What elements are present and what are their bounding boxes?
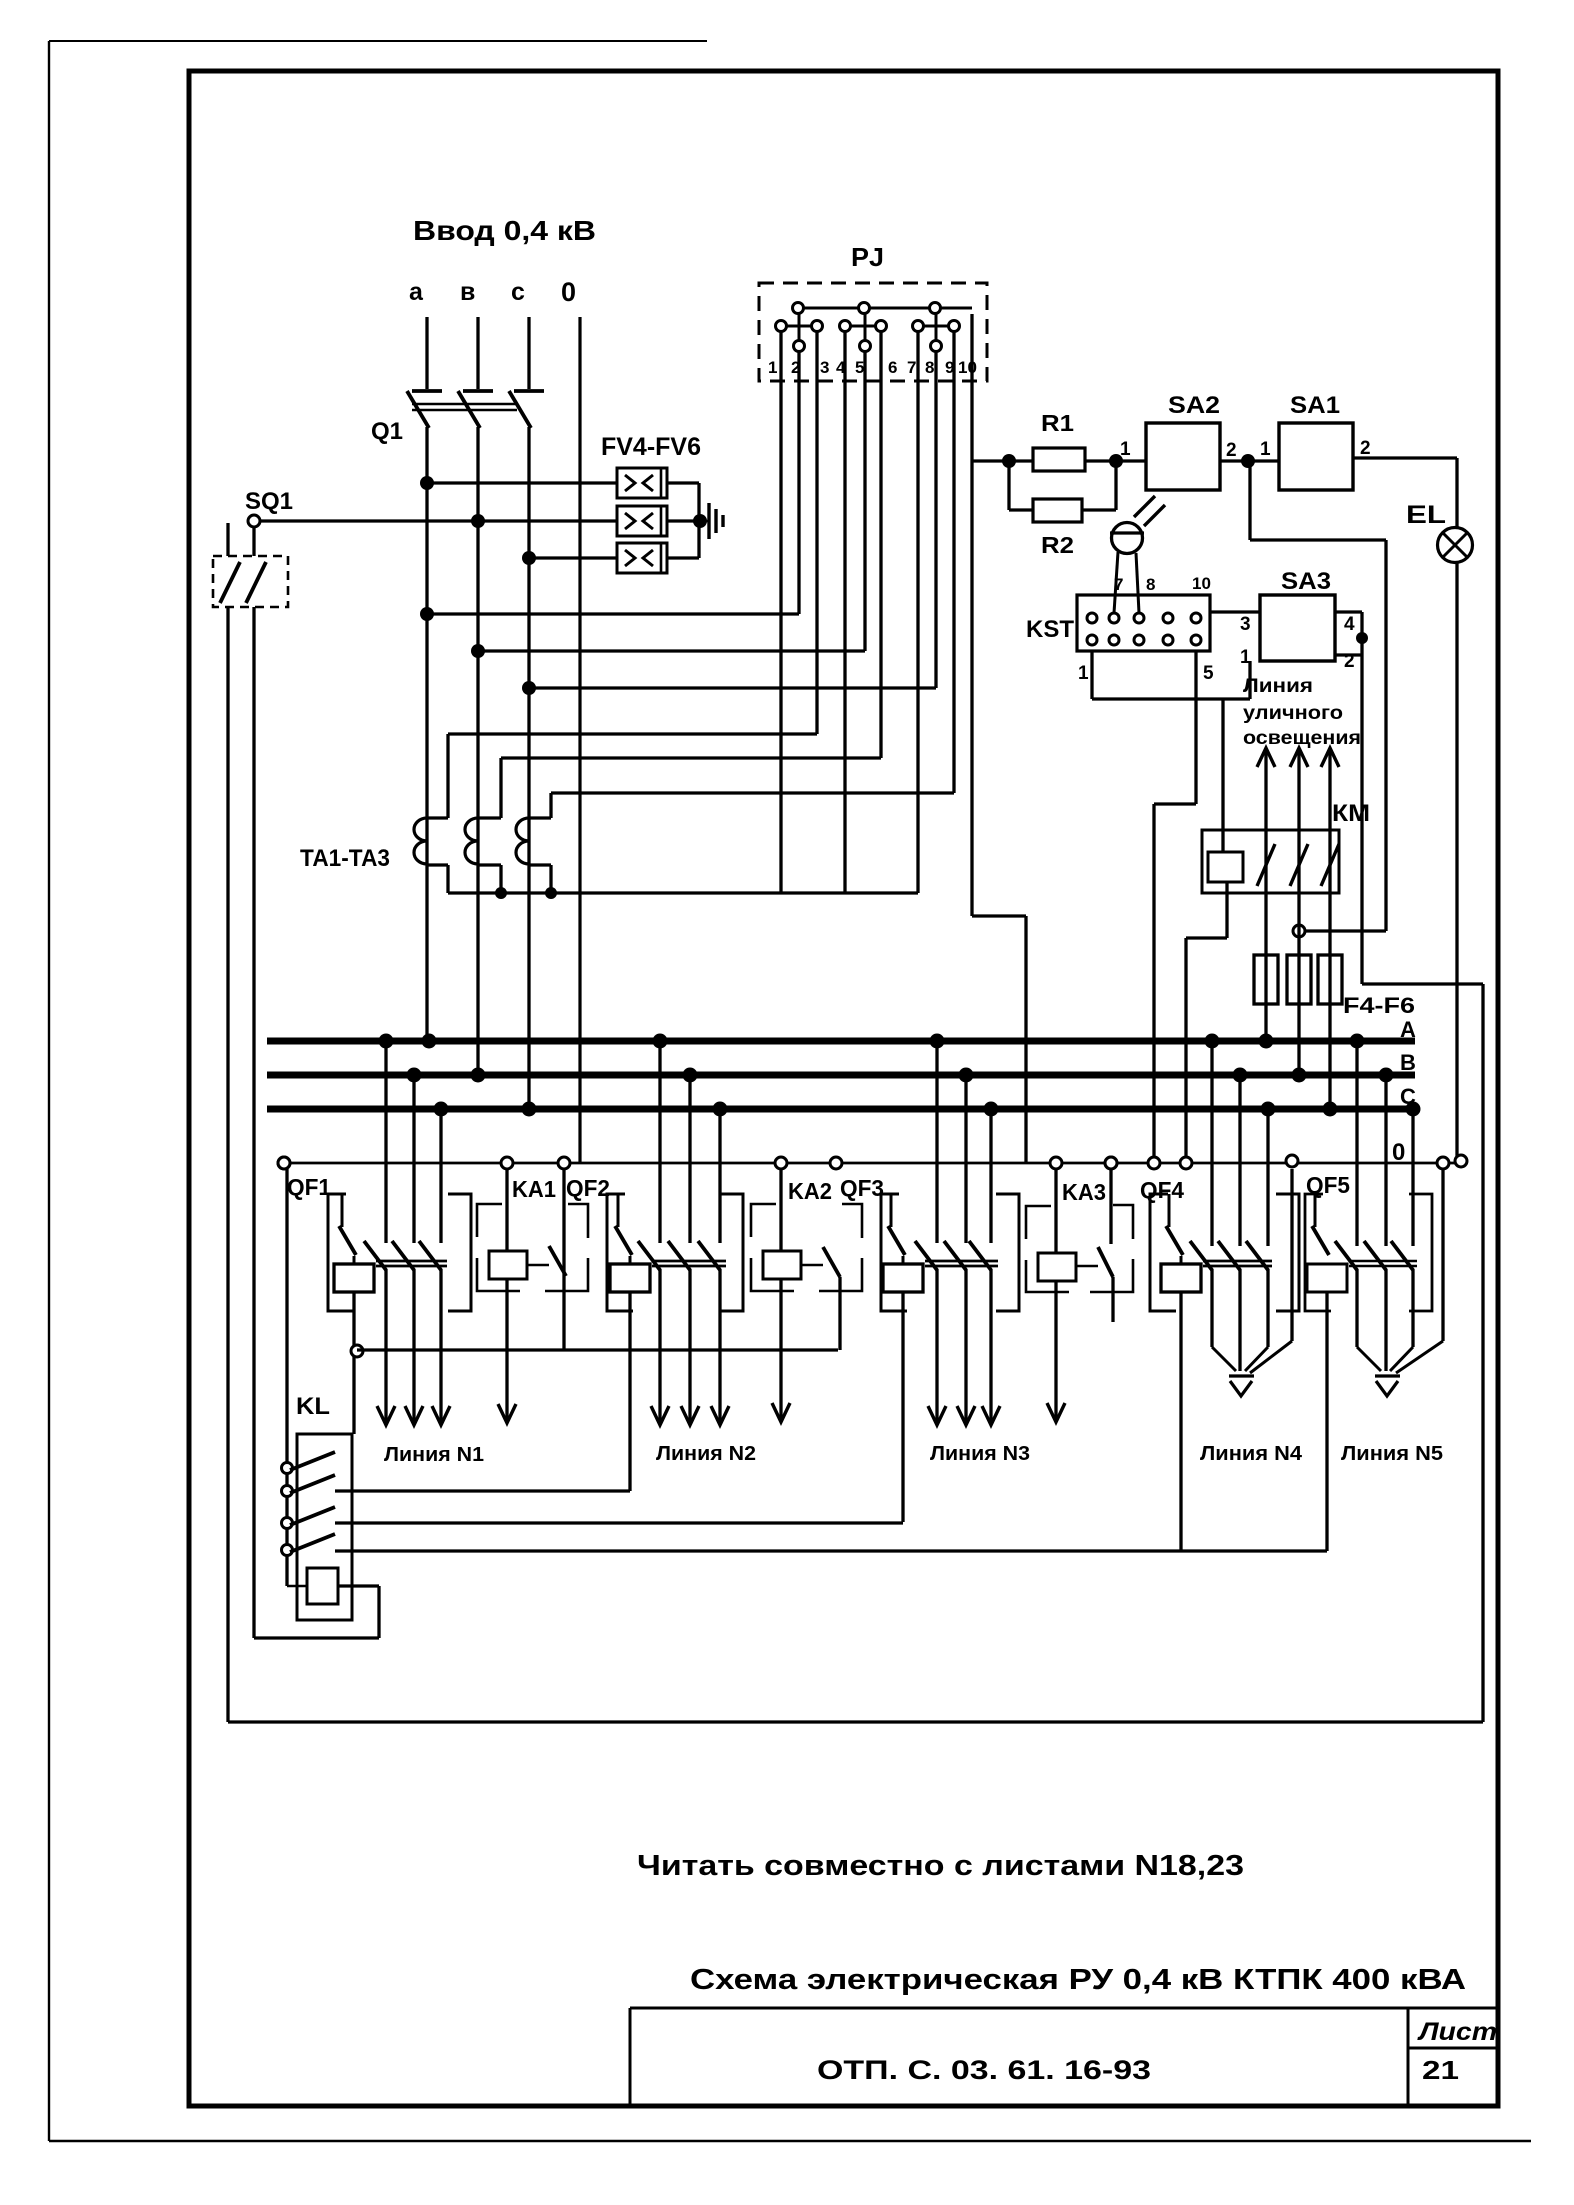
svg-text:QF1: QF1 (287, 1174, 331, 1200)
wire KL contact2 to QF2 coil (335, 1489, 630, 1492)
QF4 neutral terminal (1286, 1155, 1298, 1167)
svg-text:3: 3 (1240, 614, 1251, 635)
relay KA3 (1026, 1157, 1133, 1422)
relay KA1 (477, 1157, 588, 1423)
wire bus taps to QF3 (937, 1041, 991, 1243)
wire SA2 junction to street light phase (1250, 461, 1386, 937)
circuit breaker QF2 (558, 1157, 743, 1491)
wire phase b vertical (476, 317, 479, 1075)
svg-text:QF3: QF3 (840, 1175, 884, 1201)
node SA2 pin2 (1220, 440, 1255, 468)
arrester FV6 (617, 543, 667, 573)
wire arrester common (667, 483, 707, 558)
svg-text:SA2: SA2 (1168, 392, 1220, 419)
relay KA2 (751, 1157, 862, 1422)
node R1 right (1109, 439, 1131, 468)
svg-text:Линия N3: Линия N3 (930, 1443, 1030, 1465)
svg-text:ОТП. С. 03. 61. 16-93: ОТП. С. 03. 61. 16-93 (817, 2055, 1151, 2085)
svg-text:SA1: SA1 (1290, 392, 1340, 419)
svg-text:KST: KST (1026, 616, 1074, 643)
relay KL (282, 1169, 380, 1638)
lamp EL terminal on bus 0 (1455, 1155, 1467, 1167)
svg-text:4: 4 (1344, 614, 1355, 635)
svg-text:КМ: КМ (1332, 800, 1370, 827)
svg-text:Схема электрическая РУ 0,4: Схема электрическая РУ 0,4 кВ КТПК 400 к… (690, 1964, 1466, 1996)
current transformer TA3 (516, 793, 551, 893)
svg-text:с: с (511, 278, 525, 306)
svg-text:KA1: KA1 (512, 1176, 556, 1202)
photo sensor (1110, 496, 1165, 613)
switch SA1 (1248, 392, 1353, 490)
svg-text:1: 1 (1240, 647, 1251, 668)
svg-text:R1: R1 (1041, 410, 1074, 436)
wire phase a vertical (425, 317, 428, 1041)
svg-text:Ввод 0,4 кВ: Ввод 0,4 кВ (413, 215, 596, 246)
wire bus taps to QF5 (1357, 1041, 1413, 1246)
svg-text:B: B (1400, 1050, 1416, 1075)
wire KST pin5 to bus 0 (1154, 651, 1196, 1163)
bus C (267, 1084, 1421, 1117)
svg-text:2: 2 (1360, 438, 1371, 459)
svg-text:EL: EL (1406, 501, 1446, 529)
svg-text:1: 1 (1120, 439, 1131, 460)
wire QF4 neutral and KA3 contact (1111, 1167, 1113, 1322)
svg-text:1: 1 (1260, 439, 1271, 460)
sheet title text (690, 1964, 1466, 1996)
svg-text:KA2: KA2 (788, 1178, 832, 1204)
title block document number (817, 2055, 1151, 2085)
svg-text:3: 3 (820, 358, 829, 377)
svg-text:F4-F6: F4-F6 (1343, 993, 1415, 1018)
sheet note text (637, 1850, 1244, 1882)
svg-text:QF4: QF4 (1140, 1177, 1184, 1203)
wire KM coil to bus 0 (1186, 882, 1227, 1163)
wire SA3 to bottom loop (1362, 984, 1483, 1722)
wire neutral 0 vertical (578, 317, 581, 1163)
meter PJ (759, 283, 987, 381)
svg-text:Читать совместно с листами: Читать совместно с листами N18,23 (637, 1850, 1244, 1882)
wire KL contact3 to QF3 coil (335, 1521, 903, 1524)
svg-text:1: 1 (1078, 663, 1089, 684)
wire PJ terminal 8 to phase c (522, 352, 936, 695)
svg-text:2: 2 (1226, 440, 1237, 461)
svg-text:FV4-FV6: FV4-FV6 (601, 433, 701, 461)
wire SQ1 to phase b to FV5 (260, 514, 617, 528)
wire bus taps to QF2 (660, 1041, 720, 1243)
svg-text:Лист: Лист (1417, 2018, 1497, 2046)
wire PJ terminal 10 to neutral bus (972, 314, 1026, 1163)
svg-text:Линия N1: Линия N1 (384, 1444, 484, 1466)
lamp EL (1406, 501, 1473, 563)
wire phase c to FV6 (522, 551, 617, 565)
wire KL contact4 to QF4 QF5 coils (335, 1549, 1327, 1552)
wire PJ terminal 7 to TA commons (448, 332, 918, 899)
svg-text:Линия: Линия (1243, 676, 1313, 697)
wire PJ terminal 1 (779, 332, 782, 893)
arresters FV4-FV6 label (601, 433, 701, 461)
wire PJ terminal 10 branch to R1 (972, 454, 1016, 468)
title block sheet number 21 (1422, 2055, 1459, 2085)
svg-text:Линия N5: Линия N5 (1341, 1443, 1443, 1465)
bus A (267, 1017, 1416, 1049)
svg-text:7: 7 (1114, 575, 1123, 594)
circuit breaker QF3 (830, 1157, 1019, 1522)
svg-text:1: 1 (768, 358, 777, 377)
phase label 0 (561, 277, 576, 307)
wire SQ1 to KL coil (254, 1636, 379, 1639)
svg-text:Q1: Q1 (371, 418, 403, 445)
feeder cable line N4 label (1200, 1443, 1303, 1465)
current transformer TA2 (465, 758, 501, 893)
svg-text:а: а (409, 278, 424, 306)
feeder line N3 label (930, 1443, 1030, 1465)
wire KST to SA3 pin3 (1210, 610, 1260, 613)
svg-text:уличного: уличного (1243, 703, 1343, 724)
wire KST pin1 to KM coil (1092, 651, 1250, 852)
svg-text:ТА1-ТА3: ТА1-ТА3 (300, 845, 390, 872)
wire PJ terminal 3 to TA1 (448, 332, 817, 734)
feeder line N2 label (656, 1443, 756, 1465)
switch SQ1 (213, 488, 293, 1722)
svg-text:освещения: освещения (1243, 728, 1361, 749)
wire phase c vertical (527, 317, 530, 1109)
svg-text:QF2: QF2 (566, 1175, 610, 1201)
phase label a (409, 278, 424, 306)
arrester FV5 (617, 506, 667, 536)
bus 0 terminals for KM and KST wires (1105, 1157, 1192, 1169)
wire phase a to FV4 (420, 476, 617, 490)
circuit breaker Q1 (371, 391, 544, 445)
resistor R1 (1009, 410, 1116, 471)
circuit breaker QF1 (278, 1157, 471, 1434)
label street lighting line (1243, 676, 1361, 749)
svg-text:SQ1: SQ1 (245, 488, 293, 515)
svg-text:21: 21 (1422, 2055, 1459, 2085)
svg-text:SA3: SA3 (1281, 568, 1331, 595)
fuses F4-F6 (1254, 955, 1415, 1109)
wire SA3 pins 4 and 2 (1335, 612, 1368, 984)
switch SA3 (1240, 568, 1355, 672)
svg-text:PJ: PJ (851, 242, 884, 272)
svg-text:KL: KL (296, 1393, 330, 1420)
svg-text:10: 10 (958, 358, 977, 377)
phase label c (511, 278, 525, 306)
wire bus taps to QF4 (1212, 1041, 1268, 1246)
switch SA2 (1116, 392, 1220, 490)
resistor R2 (1009, 461, 1116, 558)
bus 0 (278, 1139, 1462, 1169)
wire lamp EL to bus 0 (1455, 562, 1458, 1163)
svg-text:5: 5 (855, 358, 864, 377)
svg-text:0: 0 (561, 277, 576, 307)
wire PJ terminal 4 (843, 332, 846, 893)
title block sheet word (1417, 2018, 1497, 2046)
svg-text:8: 8 (1146, 575, 1155, 594)
arrester FV4 (617, 468, 667, 498)
wire PJ terminal 2 to phase a (420, 352, 799, 621)
meter PJ label (851, 242, 884, 272)
terminal block KST (1026, 574, 1214, 684)
label Ввод 0,4 кВ (413, 215, 596, 246)
circuit breaker QF4 (1105, 1157, 1299, 1551)
svg-text:5: 5 (1203, 663, 1214, 684)
ground (706, 503, 723, 539)
svg-text:10: 10 (1192, 574, 1211, 593)
wire QF2 neutral and KA1 contact to control (357, 1169, 838, 1350)
wire PJ terminal 9 to TA3 (551, 332, 954, 793)
wire street light phases through KM (1266, 830, 1330, 957)
bus B (267, 1050, 1416, 1083)
current transformer TA1 (414, 734, 448, 893)
svg-text:0: 0 (1392, 1139, 1405, 1166)
wire SA1 pin2 to lamp EL (1353, 438, 1457, 528)
svg-text:Линия N2: Линия N2 (656, 1443, 756, 1465)
QF5 neutral terminal (1437, 1157, 1449, 1169)
wire PJ terminal 5 to phase b (471, 352, 865, 658)
wire PJ terminal 6 to TA2 (501, 332, 881, 758)
wire bus taps to QF1 (386, 1041, 441, 1243)
phase label b (460, 278, 475, 306)
circuit breaker QF5 (1305, 1169, 1443, 1551)
svg-text:7: 7 (907, 358, 916, 377)
feeder line N1 label (384, 1444, 484, 1466)
current transformers TA1-TA3 label (300, 845, 390, 872)
svg-text:R2: R2 (1041, 532, 1074, 558)
contactor KM (1202, 800, 1370, 893)
street lighting line arrows (1257, 748, 1339, 830)
svg-text:8: 8 (925, 358, 934, 377)
svg-text:в: в (460, 278, 475, 306)
svg-text:6: 6 (888, 358, 897, 377)
feeder cable line N5 label (1341, 1443, 1443, 1465)
svg-text:KA3: KA3 (1062, 1179, 1106, 1205)
wire SQ1 bottom loop (228, 1720, 1483, 1723)
svg-text:Линия N4: Линия N4 (1200, 1443, 1303, 1465)
svg-text:A: A (1400, 1017, 1416, 1042)
